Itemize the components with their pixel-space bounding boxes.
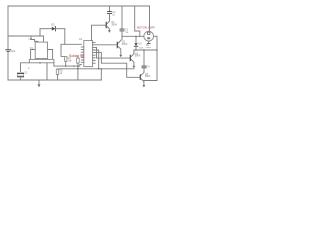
resistor R3 bottom lead [77, 63, 79, 80]
wire top bus right drop [149, 6, 151, 31]
wire staircase to box U2 pin1 [31, 36, 38, 42]
motor M1 shaft circle [147, 32, 150, 35]
capacitor C4 [142, 65, 146, 67]
wire rail A [54, 65, 81, 67]
resistor R2 [56, 69, 58, 75]
junction R3 rail B [77, 68, 78, 69]
diode D2 top wire [135, 36, 137, 43]
svg-text:bat1: bat1 [11, 50, 16, 53]
transistor Q3 [129, 55, 131, 60]
wire left rail lower [7, 52, 9, 80]
svg-text:C1: C1 [24, 72, 28, 75]
svg-text:3904: 3904 [111, 23, 117, 26]
diode D2 [134, 43, 137, 46]
box U2 right pin [48, 50, 53, 60]
wire bar to C1 [21, 63, 30, 72]
svg-text:D1: D1 [51, 22, 55, 26]
IC U1 body [84, 41, 93, 67]
resistor R3 [77, 58, 80, 63]
wire collector rail y50 [134, 49, 157, 51]
diode D2 bottom wire [135, 46, 137, 50]
svg-text:10k: 10k [68, 59, 73, 62]
junction D2 rail [135, 49, 136, 50]
junction motor return rail [156, 49, 157, 50]
resistor R1 lead [65, 61, 67, 66]
capacitor C3 bottom wire [121, 31, 123, 36]
svg-text:2: 2 [28, 67, 30, 70]
capacitor C1 electrolytic [17, 72, 23, 77]
capacitor C2 [108, 11, 112, 13]
junction rail A [73, 66, 74, 67]
wire IC pin to rail B [93, 50, 99, 69]
wire bar to rail A [53, 63, 55, 66]
svg-text:3904: 3904 [122, 43, 128, 46]
wire Q4 emitter to motor return [144, 36, 157, 80]
junction C4 rail [143, 49, 144, 50]
wire top power bus [8, 5, 150, 7]
battery BAT1 [6, 50, 11, 52]
transistor Q4 [139, 75, 141, 79]
wire to box U2 pin2 [40, 36, 44, 42]
wire motor feed row [122, 35, 140, 37]
box U2 left pin [31, 50, 36, 60]
resistor R3 top lead [77, 56, 79, 58]
IC U1 right pin stubs [93, 42, 96, 44]
motor M1 brush [147, 37, 151, 39]
wire IC pin to Q2 base [93, 44, 118, 46]
IC U1 top pin wire to Q1 base [92, 25, 106, 40]
svg-text:3904: 3904 [145, 75, 151, 78]
wire battery rail y36 [8, 35, 40, 37]
wire left rail upper [7, 6, 9, 49]
capacitor C4 top wire [143, 50, 145, 66]
capacitor C2 bottom wire [109, 14, 111, 22]
wire bar pin to bus [46, 63, 48, 80]
wire branch down to R1 [61, 44, 65, 56]
junction on bar [39, 62, 40, 63]
wire IC pin to Q4 base [93, 53, 141, 78]
rail B ground return [58, 68, 135, 70]
motor M1 body [144, 31, 154, 41]
svg-text:U1: U1 [79, 37, 83, 41]
connector bar J1 [29, 59, 54, 62]
capacitor C3 top wire [121, 6, 123, 29]
junction riser rail B [101, 68, 102, 69]
motor M1 bottom stub [148, 41, 150, 43]
svg-text:C4: C4 [146, 65, 150, 68]
svg-text:D2: D2 [138, 43, 142, 46]
box U2 body [35, 42, 47, 59]
motor M1 right lead [154, 35, 157, 37]
svg-text:4148: 4148 [138, 47, 144, 49]
transistor Q1 [107, 21, 110, 24]
transistor Q2 [116, 42, 118, 47]
wire bottom ground bus [8, 79, 101, 81]
capacitor C2 top wire [109, 6, 111, 11]
wire C1 to bus [20, 78, 22, 80]
capacitor C3 [120, 28, 124, 30]
junction R3 rail A [77, 66, 78, 67]
resistor R2 leads [57, 75, 59, 80]
ground arrow [38, 80, 40, 85]
svg-text:.1u: .1u [125, 31, 129, 34]
transistor Q4 collector [141, 68, 144, 75]
resistor R1 [65, 56, 67, 61]
svg-text:MOTOR_PWR: MOTOR_PWR [137, 26, 155, 30]
wire diode row right [55, 28, 64, 30]
svg-text:U2: U2 [29, 37, 33, 41]
junction C3 motor row [121, 36, 122, 37]
junction R1 rail A [65, 66, 66, 67]
svg-text:motor: motor [146, 46, 152, 49]
wire drop to IC row [64, 29, 66, 45]
motor M1 left lead [140, 35, 144, 37]
junction D2 motor row [135, 36, 136, 37]
wire riser to diode row [39, 29, 41, 36]
junction rail B [98, 68, 99, 69]
box U2 bottom pins [37, 58, 39, 61]
wire IC input row [61, 43, 81, 45]
wire diode row left [40, 28, 52, 30]
wire bus drop to motor [135, 6, 140, 36]
transistor Q2 collector [118, 36, 122, 43]
svg-text:3904: 3904 [135, 55, 141, 58]
diode D1 [52, 27, 56, 31]
IC U1 left pin stubs [81, 46, 84, 48]
wire ground bus riser [100, 69, 102, 80]
wire IC pin to Q3 base [93, 47, 131, 58]
